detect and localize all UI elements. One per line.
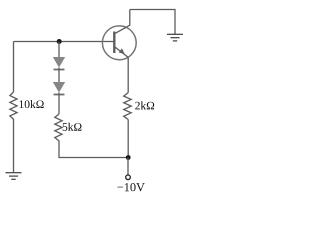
label 2kΩ <box>135 101 154 109</box>
transistor Q1 collector lead <box>114 10 130 34</box>
wire node B to supply terminal <box>127 158 129 176</box>
diode D2 <box>53 82 65 114</box>
wire 5kΩ to bottom rail <box>59 142 128 158</box>
resistor 2kΩ <box>124 93 132 120</box>
wire emitter down to 2kΩ <box>127 57 129 92</box>
wire top horizontal (base feed) <box>14 41 115 43</box>
wire 10kΩ to ground <box>13 121 15 172</box>
transistor Q1 base bar <box>113 32 115 54</box>
ground right <box>167 34 183 41</box>
wire 2kΩ to bottom rail <box>127 120 129 158</box>
label 5kΩ <box>63 123 82 131</box>
resistor 5kΩ <box>55 114 62 142</box>
node A junction dot <box>57 39 62 44</box>
terminal -10V open circle <box>126 175 131 180</box>
transistor Q1 circle <box>102 26 136 60</box>
transistor Q1 emitter arrow (NPN, pointing out) <box>119 48 125 54</box>
resistor 10kΩ <box>10 92 17 121</box>
wire collector to right ground <box>130 10 175 35</box>
wire left vertical <box>13 42 15 93</box>
diode D1 <box>53 57 65 82</box>
ground left <box>6 173 22 180</box>
node B junction dot <box>126 155 131 160</box>
wire node A down to diode D1 <box>58 42 60 58</box>
label 10kΩ <box>20 100 44 108</box>
label -10V <box>117 183 144 191</box>
transistor Q1 emitter lead <box>114 47 128 58</box>
